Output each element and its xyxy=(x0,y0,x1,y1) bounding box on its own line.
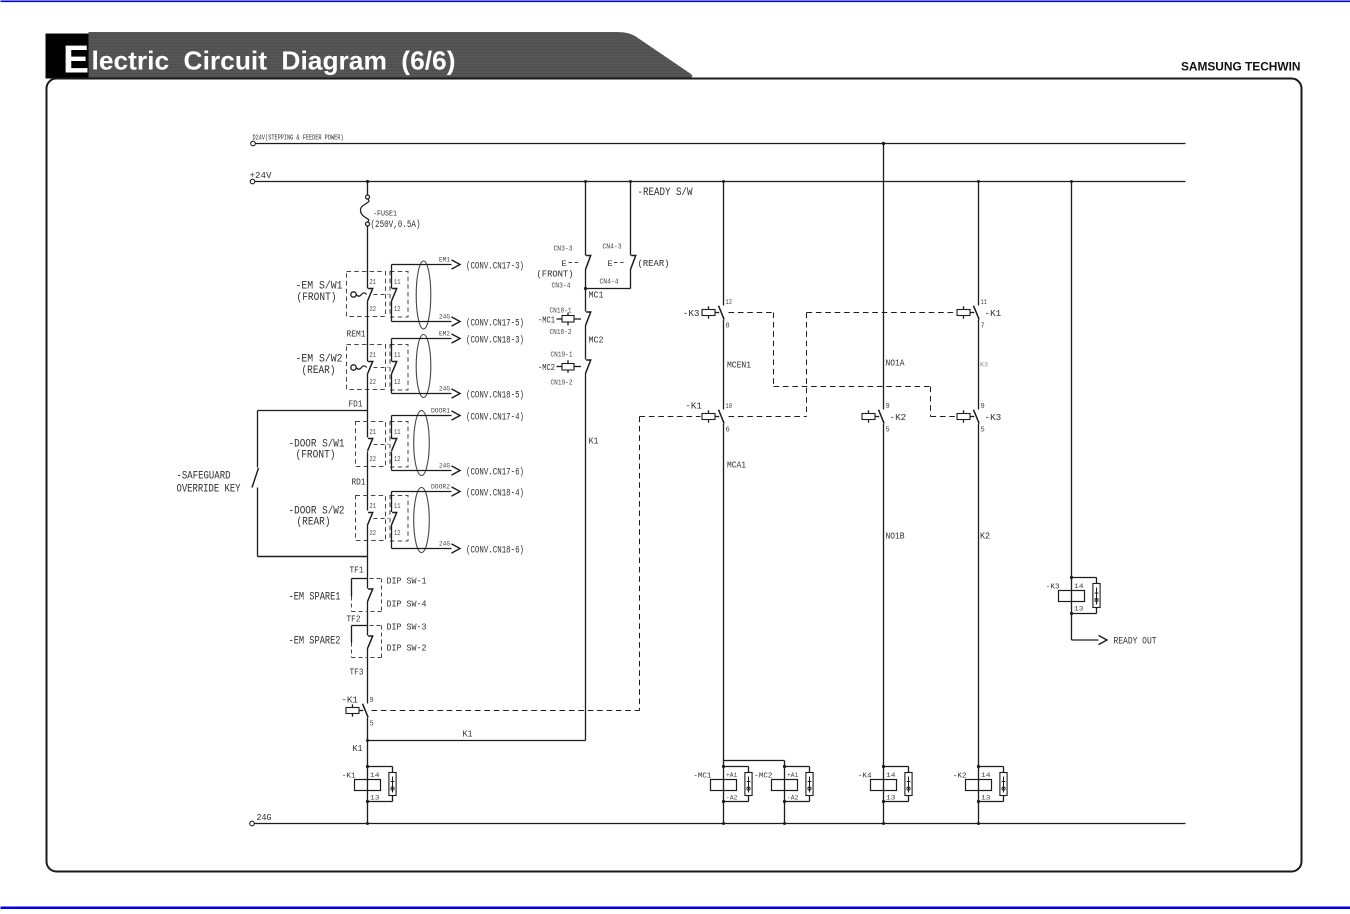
svg-text:-K2: -K2 xyxy=(953,773,967,781)
svg-text:-EM S/W2: -EM S/W2 xyxy=(296,354,343,366)
svg-text:DOOR1: DOOR1 xyxy=(431,408,450,416)
wire EM S/W1 out EM1 xyxy=(391,265,393,289)
svg-text:FD1: FD1 xyxy=(349,399,363,410)
rail 24G xyxy=(250,821,255,826)
svg-text:(REAR): (REAR) xyxy=(638,258,670,269)
svg-text:E: E xyxy=(63,39,89,82)
wire bus1 K1 contact to coil xyxy=(367,718,369,767)
switch block -DOOR S/W2 (REAR) xyxy=(356,496,386,541)
svg-text:-READY S/W: -READY S/W xyxy=(638,187,693,199)
svg-text:E: E xyxy=(562,259,567,269)
svg-text:(FRONT): (FRONT) xyxy=(296,450,336,462)
svg-text:(FRONT): (FRONT) xyxy=(297,292,337,304)
svg-text:DIP SW-1: DIP SW-1 xyxy=(387,576,427,587)
svg-text:13: 13 xyxy=(981,795,991,802)
svg-text:9: 9 xyxy=(886,403,890,411)
coil -MC2 with suppressor xyxy=(784,767,786,802)
svg-text:K1: K1 xyxy=(353,743,363,754)
svg-text:DIP SW-2: DIP SW-2 xyxy=(387,643,427,654)
wire rear-E to junction xyxy=(630,270,632,289)
cable ellipse EM S/W1 xyxy=(416,261,431,329)
svg-text:REM1: REM1 xyxy=(347,329,366,340)
wire lineB from D24V xyxy=(883,144,885,410)
svg-text:CN19-2: CN19-2 xyxy=(551,380,573,388)
svg-text:9: 9 xyxy=(370,697,374,705)
svg-text:11: 11 xyxy=(981,299,988,307)
svg-text:-A2: -A2 xyxy=(787,795,799,802)
wire DOOR S/W2 out 24G xyxy=(391,525,393,549)
svg-text:TF2: TF2 xyxy=(347,614,361,625)
svg-text:DIP SW-4: DIP SW-4 xyxy=(387,599,427,610)
svg-text:OVERRIDE KEY: OVERRIDE KEY xyxy=(177,484,241,496)
svg-text:(REAR): (REAR) xyxy=(302,365,336,377)
svg-text:TF3: TF3 xyxy=(350,667,364,678)
wire lineD top xyxy=(1071,182,1073,578)
svg-text:12: 12 xyxy=(394,379,401,387)
wire lineA MCA1 segment xyxy=(723,424,725,767)
svg-text:21: 21 xyxy=(370,429,377,437)
coil -K3 with suppressor xyxy=(1071,578,1073,614)
svg-text:22: 22 xyxy=(370,456,377,464)
svg-text:(CONV.CN17-6): (CONV.CN17-6) xyxy=(466,467,524,479)
rail +24V xyxy=(250,179,255,184)
wire rear-E branch xyxy=(630,182,632,256)
title bar xyxy=(89,32,693,78)
wire DOOR S/W1 out DOOR1 xyxy=(391,416,393,440)
svg-text:+A1: +A1 xyxy=(726,772,738,779)
svg-text:(CONV.CN18-5): (CONV.CN18-5) xyxy=(466,390,524,402)
svg-text:10: 10 xyxy=(726,403,733,411)
relay contact -K1 (11/7) xyxy=(957,310,970,316)
wire MC2 branch to 24G xyxy=(784,802,786,824)
svg-text:RD1: RD1 xyxy=(352,477,366,488)
wire lineA top xyxy=(723,182,725,306)
svg-text:-MC2: -MC2 xyxy=(538,362,555,373)
svg-text:11: 11 xyxy=(394,279,401,287)
switch block -EM S/W2 (REAR) xyxy=(347,345,386,390)
svg-text:-K3: -K3 xyxy=(1046,584,1060,592)
svg-text:7: 7 xyxy=(981,323,985,331)
wire lineC coil to 24G xyxy=(978,802,980,824)
wire lineA coil to 24G xyxy=(723,802,725,824)
svg-text:K3: K3 xyxy=(980,362,988,369)
svg-text:6: 6 xyxy=(726,427,730,435)
svg-text:13: 13 xyxy=(886,795,896,802)
coil -K2 with suppressor xyxy=(978,767,980,802)
relay contact -K1 (9/5) bottom left xyxy=(346,708,359,714)
dashed link -K3 contacts xyxy=(729,312,774,314)
svg-text:-EM SPARE1: -EM SPARE1 xyxy=(289,592,341,604)
bottom blue rule xyxy=(1,907,1350,910)
svg-text:21: 21 xyxy=(370,503,377,511)
svg-text:CN18-2: CN18-2 xyxy=(550,329,572,337)
svg-text:DOOR2: DOOR2 xyxy=(431,484,450,492)
svg-text:-K4: -K4 xyxy=(858,773,872,781)
rail D24V xyxy=(251,141,256,146)
wire ready-chain down to K1 row xyxy=(585,374,587,741)
svg-text:(CONV.CN18-6): (CONV.CN18-6) xyxy=(466,545,524,557)
wire bus1 EM S/W2 to DOOR S/W1 xyxy=(367,374,369,438)
wire bus1 fuse to EM S/W1 xyxy=(367,226,369,289)
relay contact -K3 (9/5) xyxy=(957,414,970,420)
svg-text:14: 14 xyxy=(1074,583,1084,590)
dip switch block -EM SPARE1 xyxy=(352,578,368,580)
svg-text:E: E xyxy=(608,259,613,269)
svg-text:5: 5 xyxy=(886,427,890,435)
svg-text:K2: K2 xyxy=(980,531,990,542)
svg-text:11: 11 xyxy=(394,429,401,437)
svg-text:12: 12 xyxy=(394,306,401,314)
wire front-E to MC1 xyxy=(585,270,587,312)
wire bus1 EM S/W1 to EM S/W2 xyxy=(367,301,369,362)
wire DOOR S/W1 out 24G xyxy=(391,452,393,471)
svg-text:22: 22 xyxy=(370,379,377,387)
svg-text:DIP SW-3: DIP SW-3 xyxy=(387,622,427,633)
wire lineB coil to 24G xyxy=(883,802,885,824)
fuse -FUSE1 xyxy=(366,195,370,199)
svg-text:12: 12 xyxy=(394,456,401,464)
svg-text:-MC1: -MC1 xyxy=(538,315,555,326)
svg-text:13: 13 xyxy=(370,795,380,802)
wire EM S/W2 out EM2 xyxy=(391,339,393,362)
svg-text:11: 11 xyxy=(394,503,401,511)
wire lineC middle xyxy=(978,320,980,410)
svg-text:-SAFEGUARD: -SAFEGUARD xyxy=(177,471,231,483)
svg-text:(CONV.CN17-5): (CONV.CN17-5) xyxy=(466,318,524,330)
wire bus1 spare2 to K1 contact xyxy=(367,649,369,704)
title initial box xyxy=(46,34,89,79)
svg-text:K1: K1 xyxy=(463,729,473,740)
svg-text:MCEN1: MCEN1 xyxy=(727,360,751,371)
svg-text:21: 21 xyxy=(370,279,377,287)
svg-text:24G: 24G xyxy=(257,812,272,823)
svg-text:-K3: -K3 xyxy=(985,412,1002,423)
svg-text:TF1: TF1 xyxy=(350,565,364,576)
svg-text:24G: 24G xyxy=(439,463,450,471)
svg-text:K1: K1 xyxy=(589,436,599,447)
safeguard override key bracket xyxy=(258,410,368,412)
dashed link -K1 contacts lower xyxy=(640,416,701,418)
svg-text:-MC1: -MC1 xyxy=(693,773,712,781)
dip switch block -EM SPARE2 xyxy=(352,625,368,627)
top blue rule xyxy=(1,1,1350,3)
cable ellipse DOOR S/W2 xyxy=(414,488,430,553)
wire lineC top xyxy=(978,182,980,306)
svg-text:24G: 24G xyxy=(439,314,450,322)
wire K1 horizontal xyxy=(368,740,586,742)
wire lineA MCEN1 segment xyxy=(723,320,725,410)
wire MC1 to MC2 xyxy=(585,326,587,360)
svg-text:21: 21 xyxy=(370,352,377,360)
wire bus1 spare1 to spare2 xyxy=(367,602,369,636)
wire EM S/W1 out 24G xyxy=(391,301,393,322)
svg-text:NO1A: NO1A xyxy=(886,358,905,369)
svg-text:EM2: EM2 xyxy=(439,331,450,339)
svg-text:22: 22 xyxy=(370,530,377,538)
wire READY OUT xyxy=(1071,614,1073,641)
svg-text:5: 5 xyxy=(981,427,985,435)
svg-text:-K1: -K1 xyxy=(985,308,1002,319)
wire MC2 branch top xyxy=(724,760,785,762)
svg-text:EM1: EM1 xyxy=(439,257,450,265)
svg-text:14: 14 xyxy=(981,772,991,779)
wire bus1 DOOR S/W2 to TF1 xyxy=(367,525,369,589)
relay contact -K2 (9/5) xyxy=(862,414,875,420)
wire lineB lower xyxy=(883,424,885,767)
wire bus1 coil to 24G xyxy=(367,802,369,824)
cable ellipse EM S/W2 xyxy=(416,335,431,398)
svg-text:(CONV.CN18-3): (CONV.CN18-3) xyxy=(466,335,524,347)
svg-text:-EM SPARE2: -EM SPARE2 xyxy=(289,636,341,648)
svg-text:lectric Circuit Diagram (6/: lectric Circuit Diagram (6/6) xyxy=(92,46,456,76)
svg-text:12: 12 xyxy=(394,530,401,538)
svg-text:(FRONT): (FRONT) xyxy=(537,269,574,280)
wire EM S/W2 out 24G xyxy=(391,374,393,394)
svg-text:CN4-3: CN4-3 xyxy=(603,244,622,252)
coil -K4 with suppressor xyxy=(883,767,885,802)
switch block -EM S/W1 (FRONT) xyxy=(347,272,386,317)
svg-text:24G: 24G xyxy=(439,386,450,394)
svg-text:14: 14 xyxy=(370,772,380,779)
svg-text:SAMSUNG TECHWIN: SAMSUNG TECHWIN xyxy=(1181,60,1301,74)
svg-text:-EM S/W1: -EM S/W1 xyxy=(296,281,343,293)
svg-text:11: 11 xyxy=(394,352,401,360)
svg-text:CN3-4: CN3-4 xyxy=(552,283,571,291)
svg-text:CN3-3: CN3-3 xyxy=(554,246,573,254)
wire lineC lower xyxy=(978,424,980,767)
relay contact -K1 (10/6) xyxy=(702,414,715,420)
svg-text:(CONV.CN17-4): (CONV.CN17-4) xyxy=(466,412,524,424)
dashed link -K1 contacts upper xyxy=(807,312,956,314)
svg-text:8: 8 xyxy=(726,323,730,331)
svg-text:(REAR): (REAR) xyxy=(297,517,331,529)
svg-text:NO1B: NO1B xyxy=(886,531,905,542)
svg-text:5: 5 xyxy=(370,721,374,729)
svg-text:CN4-4: CN4-4 xyxy=(600,279,619,287)
svg-text:13: 13 xyxy=(1074,606,1084,613)
svg-text:22: 22 xyxy=(370,306,377,314)
svg-text:9: 9 xyxy=(981,403,985,411)
svg-text:D24V(STEPPING & FEEDER POWER): D24V(STEPPING & FEEDER POWER) xyxy=(253,135,344,143)
wire bus1 top xyxy=(367,182,369,196)
svg-text:READY OUT: READY OUT xyxy=(1114,636,1157,648)
svg-text:14: 14 xyxy=(886,772,896,779)
cable ellipse DOOR S/W1 xyxy=(414,411,430,476)
svg-text:-K3: -K3 xyxy=(683,308,700,319)
wire bus1 DOOR S/W1 to DOOR S/W2 xyxy=(367,452,369,511)
svg-text:-K2: -K2 xyxy=(890,412,907,423)
svg-text:(250V,0.5A): (250V,0.5A) xyxy=(371,219,421,231)
svg-text:-FUSE1: -FUSE1 xyxy=(373,211,397,219)
svg-text:-A2: -A2 xyxy=(726,795,738,802)
coil -MC1 with suppressor xyxy=(723,767,725,802)
svg-text:MC1: MC1 xyxy=(589,290,604,301)
svg-text:12: 12 xyxy=(726,299,733,307)
svg-text:(CONV.CN18-4): (CONV.CN18-4) xyxy=(466,488,524,500)
svg-text:MCA1: MCA1 xyxy=(727,460,746,471)
svg-text:-K1: -K1 xyxy=(685,401,702,412)
svg-text:-MC2: -MC2 xyxy=(754,773,773,781)
wire DOOR S/W2 out DOOR2 xyxy=(391,492,393,513)
svg-text:CN19-1: CN19-1 xyxy=(551,352,573,360)
svg-text:MC2: MC2 xyxy=(589,335,604,346)
svg-text:24G: 24G xyxy=(439,541,450,549)
svg-text:(CONV.CN17-3): (CONV.CN17-3) xyxy=(466,261,524,273)
relay contact -K3 (12/8) xyxy=(702,310,715,316)
switch block -DOOR S/W1 (FRONT) xyxy=(356,422,386,467)
svg-text:-K1: -K1 xyxy=(342,773,356,781)
svg-text:-K1: -K1 xyxy=(341,695,358,706)
svg-text:+A1: +A1 xyxy=(787,772,799,779)
wire ready-chain top xyxy=(585,182,587,256)
coil -K1 with suppressor xyxy=(367,767,369,802)
